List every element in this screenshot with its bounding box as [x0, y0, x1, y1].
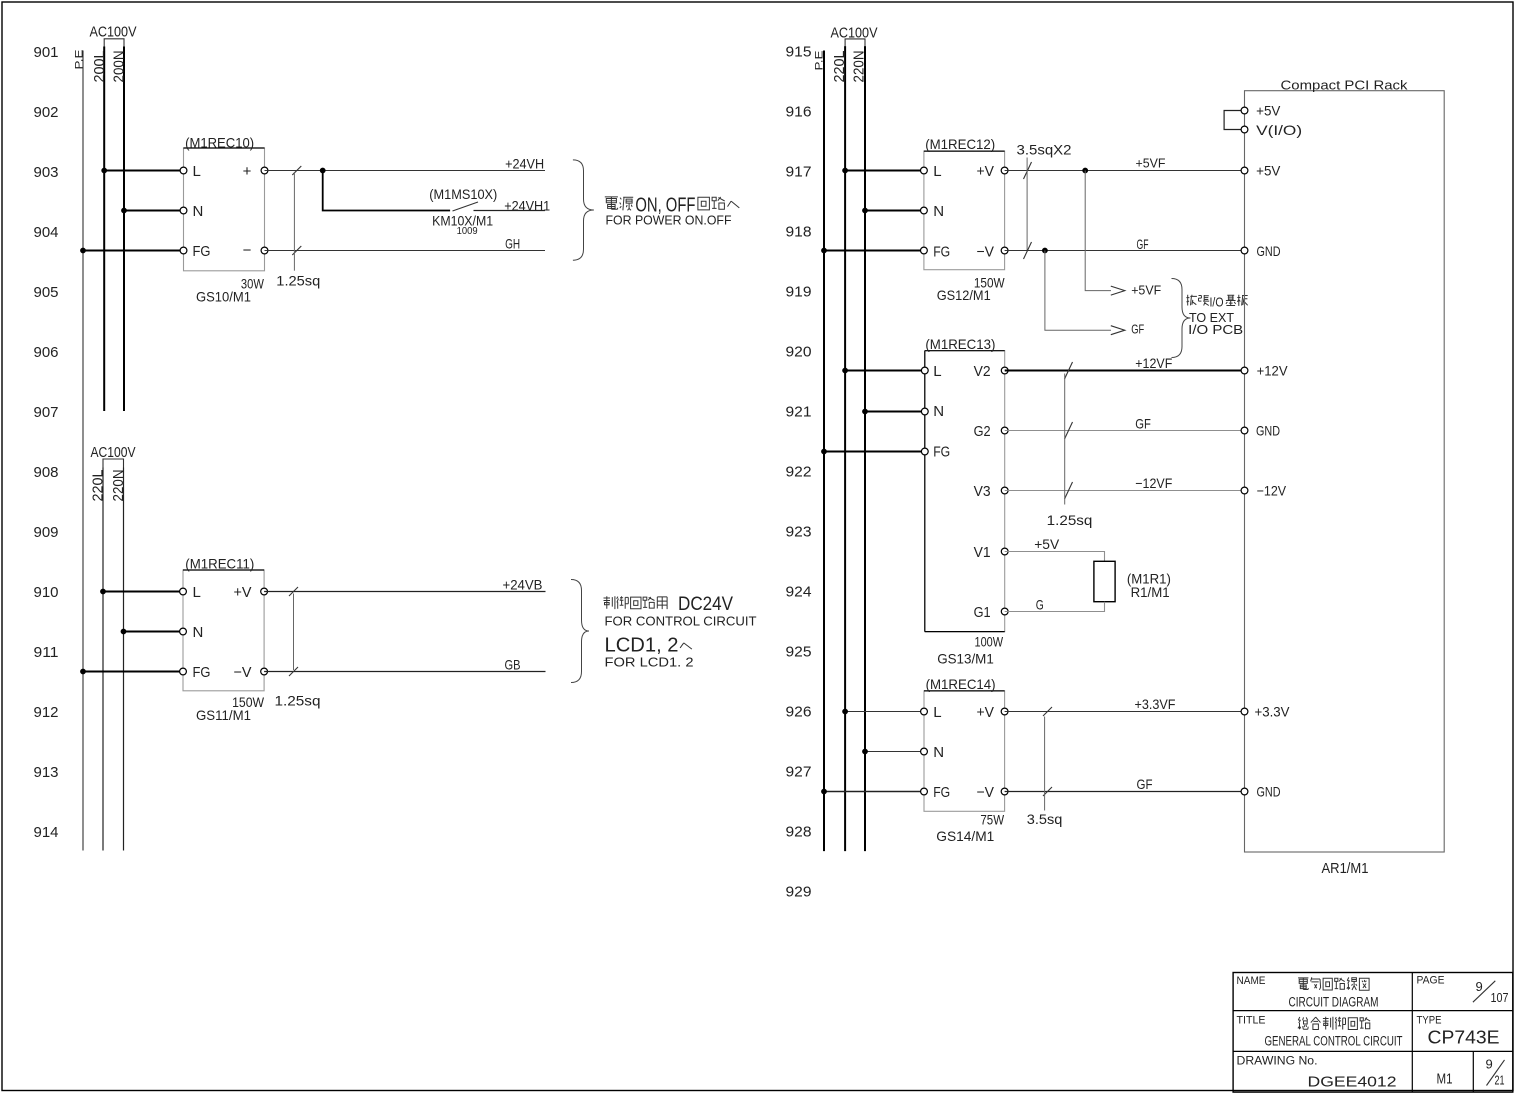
- gauge label 3.5sqX2: [1017, 141, 1072, 157]
- svg-text:−: −: [243, 242, 252, 259]
- junction dot 220N/N wire: [121, 629, 127, 635]
- svg-text:929: 929: [786, 883, 812, 900]
- wire 200N to GS10 pin N: [124, 210, 184, 212]
- svg-text:1.25sq: 1.25sq: [276, 273, 320, 289]
- wire P.E to GS10 pin FG: [83, 250, 184, 252]
- svg-text:904: 904: [34, 224, 59, 241]
- svg-text:+3.3VF: +3.3VF: [1135, 696, 1176, 712]
- svg-text:−V: −V: [977, 784, 995, 801]
- resistor R1/M1 (M1R1): [1094, 561, 1171, 601]
- wire gauge leader 3.5sq (GS14): [1044, 717, 1046, 811]
- svg-text:GND: GND: [1257, 784, 1281, 800]
- switch designator KM10X/M1: [432, 213, 493, 229]
- svg-text:I/O PCB: I/O PCB: [1188, 323, 1243, 337]
- junction dot P.E/FG (GS13): [821, 449, 827, 455]
- net label GF (GS12): [1137, 236, 1149, 252]
- svg-text:GB: GB: [505, 657, 521, 673]
- svg-text:L: L: [193, 163, 201, 180]
- rack pin GND (1): [1241, 243, 1280, 259]
- svg-text:+5VF: +5VF: [1136, 155, 1166, 170]
- junction dot P.E/FG wire: [80, 248, 86, 254]
- svg-text:+: +: [243, 163, 252, 180]
- svg-text:926: 926: [786, 703, 812, 720]
- wire G1 from resistor: [1005, 602, 1105, 612]
- net label +5VF (to ext): [1131, 282, 1161, 297]
- wire 220L to GS12 pin L: [845, 170, 924, 172]
- svg-text:DGEE4012: DGEE4012: [1308, 1074, 1397, 1091]
- wire gauge leader 1.25sq (GS13): [1064, 374, 1066, 505]
- svg-text:−V: −V: [234, 664, 252, 681]
- net label GF (to ext): [1131, 322, 1144, 337]
- svg-text:915: 915: [786, 43, 812, 60]
- svg-text:GF: GF: [1137, 776, 1153, 792]
- power supply GS11/M1 (M1REC11) 150W: [180, 556, 268, 724]
- wire gauge slash on +24VB: [289, 587, 298, 596]
- junction dot P.E/FG (GS12): [821, 248, 827, 254]
- junction dot 220L/L (GS13): [842, 368, 848, 374]
- svg-text:L: L: [933, 704, 941, 721]
- AC100V feed bracket (220L-220N lower): [103, 459, 124, 468]
- svg-text:GF: GF: [1131, 322, 1144, 337]
- junction dot P.E/FG wire (GS11): [80, 669, 86, 675]
- svg-text:V1: V1: [974, 544, 991, 561]
- wire 220L to GS14 pin L: [845, 711, 924, 713]
- wire gauge slash on +24VH: [292, 166, 301, 175]
- rail P.E (right): [823, 51, 825, 852]
- wire gauge slash on GF (G2): [1065, 422, 1073, 439]
- title DRAWING No. cell DGEE4012: [1237, 1056, 1397, 1091]
- rail label P.E (right): [814, 51, 826, 71]
- svg-text:919: 919: [786, 283, 812, 300]
- svg-text:908: 908: [34, 464, 59, 481]
- rack pin +3.3V: [1241, 704, 1290, 720]
- svg-text:220N: 220N: [110, 470, 127, 502]
- net label GH: [505, 236, 520, 252]
- svg-text:GND: GND: [1257, 243, 1281, 259]
- title TYPE cell CP743E: [1417, 1015, 1500, 1048]
- wire gauge slash on -12VF: [1065, 482, 1073, 499]
- svg-text:AR1/M1: AR1/M1: [1322, 861, 1369, 877]
- svg-text:+V: +V: [977, 163, 995, 180]
- note I/O PCB: [1188, 323, 1243, 337]
- svg-text:DRAWING No.: DRAWING No.: [1237, 1056, 1318, 1068]
- svg-text:FG: FG: [933, 444, 950, 461]
- rack pin V(I/O): [1241, 122, 1302, 138]
- svg-text:1.25sq: 1.25sq: [275, 693, 321, 709]
- wire +5VF from GS12 +V to rack +5V: [1005, 170, 1245, 172]
- net label +3.3VF: [1135, 696, 1176, 712]
- svg-text:AC100V: AC100V: [90, 24, 137, 41]
- wire gauge slash on +3.3VF: [1043, 707, 1052, 716]
- svg-text:1.25sq: 1.25sq: [1047, 512, 1093, 528]
- rail 220L (left): [102, 468, 104, 851]
- Compact PCI Rack AR1/M1 enclosure: [1245, 78, 1445, 853]
- svg-text:FG: FG: [193, 243, 211, 260]
- wire GB from GS11 -V output: [264, 671, 545, 673]
- net label +5V (V1): [1034, 536, 1060, 552]
- wire 220N to GS14 pin N: [865, 751, 924, 753]
- svg-text:FG: FG: [193, 664, 211, 681]
- svg-text:G2: G2: [974, 423, 991, 440]
- wire branch to switch KM10X: [323, 171, 450, 211]
- net label G (G1): [1036, 597, 1044, 613]
- wire GF from GS13 G2 to rack GND: [1005, 430, 1245, 432]
- svg-text:+5V: +5V: [1256, 163, 1281, 179]
- title NAME cell: [1237, 975, 1379, 1010]
- net label -12VF: [1135, 475, 1172, 491]
- svg-text:916: 916: [786, 103, 812, 120]
- net label +24VB: [503, 576, 543, 592]
- svg-text:GS12/M1: GS12/M1: [937, 287, 991, 303]
- destination brace (control circuit DC24V): [571, 580, 589, 683]
- gauge label 3.5sq (GS14): [1027, 811, 1063, 827]
- svg-text:+24VB: +24VB: [503, 576, 543, 592]
- svg-text:+24VH1: +24VH1: [504, 198, 550, 214]
- wire P.E to GS11 pin FG: [83, 671, 183, 673]
- svg-text:N: N: [193, 624, 204, 641]
- junction dot 200N/N wire: [121, 208, 127, 214]
- svg-text:FOR CONTROL CIRCUIT: FOR CONTROL CIRCUIT: [605, 615, 757, 629]
- wire GF from GS14 -V to rack GND: [1005, 791, 1245, 793]
- note 拡張I/O基板: [1186, 295, 1247, 310]
- switch sheet ref 1009: [457, 226, 478, 237]
- rack jumper +5V to V(I/O): [1224, 111, 1244, 130]
- wire gauge slash on GF: [1024, 242, 1032, 259]
- rack pin +12V: [1241, 363, 1288, 379]
- rail label P.E (left): [74, 50, 86, 70]
- rail 220N (right): [864, 46, 866, 851]
- svg-text:CP743E: CP743E: [1428, 1028, 1500, 1048]
- wire +12VF from GS13 V2 to rack +12V: [1005, 370, 1245, 372]
- title block frame: [1233, 973, 1513, 1093]
- svg-text:100W: 100W: [975, 634, 1004, 650]
- wire gauge leader 1.25sq (GS11): [293, 594, 295, 671]
- rail 220N (left): [123, 468, 125, 851]
- rail 200N: [123, 47, 125, 412]
- svg-text:200N: 200N: [111, 51, 128, 83]
- title PAGE cell 9/107: [1417, 975, 1509, 1006]
- power supply GS13/M1 (M1REC13) 100W: [921, 336, 1008, 667]
- rack pin +5V (top): [1241, 102, 1281, 118]
- svg-text:(M1REC13): (M1REC13): [925, 336, 995, 352]
- svg-text:200L: 200L: [91, 51, 108, 83]
- svg-text:I/O: I/O: [1210, 296, 1224, 310]
- svg-text:918: 918: [786, 223, 812, 240]
- wire -12VF from GS13 V3 to rack -12V: [1005, 490, 1245, 492]
- svg-text:GENERAL CONTROL CIRCUIT: GENERAL CONTROL CIRCUIT: [1265, 1034, 1403, 1049]
- wire P.E to GS12 pin FG: [824, 250, 924, 252]
- junction dot 220N/N (GS12): [862, 208, 868, 214]
- rail label 220N (right): [851, 51, 868, 83]
- junction dot 200L/L wire: [101, 168, 107, 174]
- switch contact M1MS10X blade: [453, 202, 479, 211]
- svg-text:1009: 1009: [457, 226, 478, 237]
- svg-text:(M1REC10): (M1REC10): [185, 135, 254, 151]
- svg-text:21: 21: [1495, 1073, 1505, 1088]
- power supply GS12/M1 (M1REC12) 150W: [921, 136, 1008, 303]
- svg-text:DC24V: DC24V: [678, 593, 733, 615]
- wire 220N to GS12 pin N: [865, 210, 924, 212]
- note FOR CONTROL CIRCUIT: [605, 615, 757, 629]
- svg-text:+3.3V: +3.3V: [1255, 704, 1291, 720]
- wire gauge slash on +12VF: [1065, 362, 1073, 379]
- svg-text:923: 923: [786, 523, 812, 540]
- wire GH from GS10 - output: [265, 250, 546, 252]
- svg-text:(M1REC12): (M1REC12): [925, 136, 995, 152]
- svg-text:V2: V2: [974, 363, 991, 380]
- svg-text:911: 911: [34, 644, 59, 661]
- svg-text:FOR POWER ON.OFF: FOR POWER ON.OFF: [606, 214, 732, 228]
- rail label 200L: [91, 51, 108, 83]
- svg-text:FG: FG: [933, 244, 950, 261]
- svg-text:P.E: P.E: [74, 50, 86, 70]
- wire gauge slash on GH: [292, 246, 301, 255]
- svg-text:928: 928: [786, 823, 812, 840]
- switch label (M1MS10X): [429, 186, 497, 202]
- svg-text:912: 912: [34, 704, 59, 721]
- svg-text:PAGE: PAGE: [1417, 975, 1445, 987]
- wire P.E to GS14 pin FG: [824, 791, 924, 793]
- svg-text:75W: 75W: [980, 812, 1004, 828]
- note LCD1, 2へ: [605, 635, 692, 657]
- net label +5VF: [1136, 155, 1166, 170]
- svg-text:L: L: [933, 163, 941, 180]
- svg-text:917: 917: [786, 163, 812, 180]
- destination brace (power ON/OFF circuit): [573, 160, 594, 260]
- wire 220L to GS13 pin L: [845, 370, 925, 372]
- rail label 220N (left): [110, 470, 127, 502]
- svg-text:−12V: −12V: [1257, 483, 1287, 499]
- svg-text:+5V: +5V: [1256, 102, 1281, 118]
- svg-text:R1/M1: R1/M1: [1131, 584, 1170, 600]
- junction dot 220N/N (GS13): [862, 409, 868, 415]
- svg-text:V3: V3: [974, 483, 991, 500]
- gauge label 1.25sq (GS11): [275, 693, 321, 709]
- svg-text:924: 924: [786, 583, 812, 600]
- net label +24VH1: [504, 198, 550, 214]
- svg-text:N: N: [933, 203, 944, 220]
- svg-text:GS14/M1: GS14/M1: [936, 828, 994, 844]
- junction dot 220L/L (GS14): [842, 709, 848, 715]
- svg-text:914: 914: [34, 824, 59, 841]
- wire 220L to GS11 pin L: [103, 591, 183, 593]
- svg-text:V(I/O): V(I/O): [1256, 122, 1302, 138]
- svg-text:901: 901: [34, 44, 59, 61]
- svg-text:902: 902: [34, 104, 59, 121]
- svg-text:925: 925: [786, 643, 812, 660]
- net label GB: [505, 657, 521, 673]
- svg-text:−12VF: −12VF: [1135, 475, 1172, 491]
- junction dot on +24VH: [320, 168, 326, 174]
- svg-text:GND: GND: [1256, 423, 1280, 439]
- svg-text:GH: GH: [505, 236, 520, 252]
- rail label 220L (right): [831, 51, 848, 83]
- wire V1 to bleeder resistor: [1005, 552, 1105, 562]
- branch wire +5VF to ext I/O arrow: [1085, 171, 1125, 296]
- title TITLE cell: [1237, 1015, 1403, 1049]
- svg-text:GF: GF: [1135, 416, 1151, 432]
- svg-text:P.E: P.E: [814, 51, 826, 71]
- net label AC100V (left lower feed): [91, 444, 136, 461]
- note TO EXT: [1189, 311, 1234, 325]
- wire 220N to GS13 pin N: [865, 411, 925, 413]
- AC100V feed bracket (right): [845, 39, 865, 46]
- svg-text:G1: G1: [974, 604, 991, 621]
- svg-text:903: 903: [34, 164, 59, 181]
- svg-text:+5V: +5V: [1034, 536, 1060, 552]
- svg-text:N: N: [933, 744, 944, 761]
- svg-text:CIRCUIT DIAGRAM: CIRCUIT DIAGRAM: [1289, 995, 1379, 1010]
- gauge label 1.25sq (GS10): [276, 273, 320, 289]
- title M1 cell: [1437, 1071, 1453, 1088]
- svg-text:GF: GF: [1137, 236, 1149, 252]
- svg-text:922: 922: [786, 463, 812, 480]
- svg-text:G: G: [1036, 597, 1044, 613]
- svg-text:906: 906: [34, 344, 59, 361]
- svg-text:GS13/M1: GS13/M1: [937, 651, 994, 667]
- junction dot on +5VF: [1082, 168, 1088, 174]
- svg-text:GS10/M1: GS10/M1: [196, 288, 251, 304]
- line number labels 901-914: [34, 44, 59, 841]
- rack designator AR1/M1: [1322, 861, 1369, 877]
- svg-text:TITLE: TITLE: [1237, 1015, 1266, 1027]
- svg-text:+12VF: +12VF: [1135, 355, 1172, 371]
- power supply GS10/M1 (M1REC10) 30W: [180, 135, 268, 305]
- wire gauge slash on +5VF: [1024, 162, 1032, 179]
- wire gauge leader 3.5sqX2: [1026, 158, 1028, 252]
- svg-text:9: 9: [1486, 1057, 1493, 1072]
- svg-text:(M1REC14): (M1REC14): [926, 676, 996, 692]
- junction dot 220N/N (GS14): [862, 749, 868, 755]
- svg-text:−V: −V: [977, 243, 995, 260]
- svg-text:927: 927: [786, 763, 812, 780]
- net label AC100V (top-left feed): [90, 24, 137, 41]
- svg-text:9: 9: [1476, 979, 1483, 994]
- svg-text:905: 905: [34, 284, 59, 301]
- wire gauge slash on GB: [289, 667, 298, 676]
- svg-text:220N: 220N: [851, 51, 868, 83]
- brace to ext I/O PCB: [1172, 279, 1191, 358]
- junction dot on GF: [1042, 248, 1048, 254]
- svg-text:920: 920: [786, 343, 812, 360]
- junction dot 220L/L (GS12): [842, 168, 848, 174]
- AC100V feed bracket (200L-200N): [104, 39, 124, 47]
- rack pin -12V: [1241, 483, 1287, 499]
- net label GF (GS14): [1137, 776, 1153, 792]
- power supply GS14/M1 (M1REC14) 75W: [921, 676, 1008, 844]
- svg-text:M1: M1: [1437, 1071, 1453, 1088]
- junction dot P.E/FG (GS14): [821, 789, 827, 795]
- svg-text:(M1REC11): (M1REC11): [185, 556, 254, 572]
- note FOR POWER ON.OFF: [606, 214, 732, 228]
- svg-text:910: 910: [34, 584, 59, 601]
- rack pin +5V: [1241, 163, 1281, 179]
- svg-text:LCD1, 2: LCD1, 2: [605, 635, 679, 657]
- svg-text:3.5sq: 3.5sq: [1027, 811, 1063, 827]
- svg-text:FG: FG: [933, 784, 950, 801]
- note FOR LCD1. 2: [605, 656, 694, 670]
- svg-text:220L: 220L: [90, 470, 107, 502]
- rack pin GND (2): [1241, 423, 1280, 439]
- title 9/21 cell: [1486, 1057, 1505, 1088]
- svg-text:+V: +V: [977, 704, 995, 721]
- svg-text:107: 107: [1491, 990, 1509, 1005]
- svg-text:NAME: NAME: [1237, 975, 1266, 987]
- wire P.E to GS13 pin FG: [824, 451, 925, 453]
- svg-text:+24VH: +24VH: [505, 155, 544, 171]
- svg-text:FOR LCD1. 2: FOR LCD1. 2: [605, 656, 694, 670]
- gauge label 1.25sq (GS13): [1047, 512, 1093, 528]
- note 制御回路用 DC24V: [604, 593, 734, 615]
- svg-text:3.5sqX2: 3.5sqX2: [1017, 141, 1072, 157]
- wire 200L to GS10 pin L: [104, 170, 183, 172]
- wire +24VH from GS10 + output: [265, 170, 546, 172]
- svg-text:+5VF: +5VF: [1131, 282, 1161, 297]
- wire gauge slash on GF (GS14): [1043, 787, 1052, 796]
- rail 200L: [103, 47, 105, 412]
- svg-text:907: 907: [34, 404, 59, 421]
- rail P.E (left, continuous): [82, 51, 84, 851]
- wire gauge leader 1.25sq (GS10): [293, 172, 295, 271]
- svg-text:909: 909: [34, 524, 59, 541]
- rail label 200N: [111, 51, 128, 83]
- rail label 220L (left): [90, 470, 107, 502]
- branch wire GF to ext I/O arrow: [1045, 251, 1125, 335]
- svg-text:N: N: [933, 403, 944, 420]
- rail 220L (right): [844, 46, 846, 851]
- svg-text:220L: 220L: [831, 51, 848, 83]
- note 電源ON, OFF回路へ: [605, 195, 740, 217]
- svg-text:Compact PCI Rack: Compact PCI Rack: [1281, 78, 1409, 93]
- svg-text:L: L: [933, 363, 941, 380]
- wire +24VH1 after switch: [474, 210, 546, 212]
- svg-text:913: 913: [34, 764, 59, 781]
- svg-text:921: 921: [786, 403, 812, 420]
- net label +24VH: [505, 155, 544, 171]
- svg-text:+V: +V: [234, 584, 252, 601]
- wire 220N to GS11 pin N: [124, 631, 184, 633]
- wire +3.3VF from GS14 +V to rack +3.3V: [1005, 711, 1245, 713]
- line number labels 915-929: [786, 43, 812, 900]
- net label +12VF: [1135, 355, 1172, 371]
- svg-text:TYPE: TYPE: [1417, 1015, 1442, 1027]
- wire +24VB from GS11 +V output: [264, 591, 545, 593]
- svg-text:(M1MS10X): (M1MS10X): [429, 186, 497, 202]
- svg-text:L: L: [193, 584, 201, 601]
- svg-text:GS11/M1: GS11/M1: [196, 707, 251, 723]
- junction dot 220L/L wire: [100, 589, 106, 595]
- net label AC100V (right feed): [831, 24, 878, 41]
- rack pin GND (3): [1241, 784, 1280, 800]
- wire GF from GS12 -V to rack GND: [1005, 250, 1245, 252]
- svg-text:+12V: +12V: [1257, 363, 1289, 379]
- net label GF (GS13): [1135, 416, 1151, 432]
- svg-text:N: N: [193, 203, 204, 220]
